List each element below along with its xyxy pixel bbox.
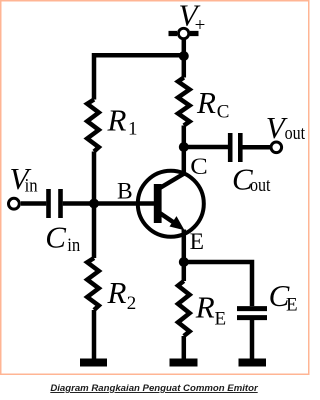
wire CE to ground xyxy=(250,320,255,359)
svg-text:E: E xyxy=(286,295,298,316)
label Cout xyxy=(232,162,271,197)
svg-text:B: B xyxy=(117,178,133,204)
label V+ xyxy=(179,0,206,36)
terminal Vout xyxy=(271,142,282,153)
wire emitter lead xyxy=(182,230,187,263)
label CE xyxy=(269,278,298,316)
transistor Q1 xyxy=(138,171,204,237)
capacitor CE xyxy=(237,309,267,318)
node below V+ xyxy=(179,51,189,61)
wire top bus xyxy=(94,55,186,99)
ground RE xyxy=(170,359,198,367)
label R2 xyxy=(107,275,137,314)
capacitor Cout xyxy=(230,133,240,162)
svg-text:E: E xyxy=(190,229,204,255)
ground R2 xyxy=(80,359,107,367)
svg-text:R: R xyxy=(195,290,215,325)
svg-text:C: C xyxy=(217,102,230,123)
wire Cin to base node xyxy=(63,201,94,206)
terminal Vin xyxy=(9,198,20,209)
resistor R2 xyxy=(87,204,99,359)
wire node to Cout xyxy=(184,145,228,150)
svg-text:1: 1 xyxy=(128,119,138,140)
wire emitter node to CE xyxy=(184,262,252,306)
svg-text:R: R xyxy=(107,103,127,138)
wire V+ stub xyxy=(182,39,187,56)
label Cin xyxy=(45,220,80,256)
resistor RE xyxy=(178,262,190,359)
label RC xyxy=(196,85,229,122)
wire R1 bottom lead xyxy=(92,152,97,204)
label Vout xyxy=(266,110,306,145)
wire base node to Q1 xyxy=(94,201,154,206)
svg-text:E: E xyxy=(215,309,227,330)
svg-text:Diagram Rangkaian Penguat Comm: Diagram Rangkaian Penguat Common Emitor xyxy=(50,383,259,394)
svg-text:in: in xyxy=(67,235,80,256)
svg-text:out: out xyxy=(250,175,271,196)
node base junction xyxy=(89,199,99,209)
svg-text:in: in xyxy=(25,176,38,197)
svg-text:C: C xyxy=(45,220,66,255)
ground CE xyxy=(239,359,267,367)
svg-text:out: out xyxy=(285,123,306,144)
svg-text:R: R xyxy=(196,85,216,120)
wire collector lead xyxy=(182,147,187,174)
label R1 xyxy=(107,103,138,140)
resistor R1 xyxy=(87,100,99,152)
label Vin xyxy=(10,161,39,196)
wire Cout to Vout xyxy=(243,145,271,150)
resistor RC xyxy=(178,56,190,147)
wire Vin to Cin xyxy=(21,201,47,206)
node collector junction xyxy=(179,142,189,152)
svg-text:R: R xyxy=(107,275,127,310)
capacitor Cin xyxy=(49,189,61,218)
svg-text:C: C xyxy=(190,154,208,180)
svg-text:2: 2 xyxy=(127,293,137,314)
svg-text:+: + xyxy=(195,15,206,36)
terminal V+ xyxy=(169,28,199,38)
label RE xyxy=(195,290,226,330)
node emitter junction xyxy=(179,257,189,267)
